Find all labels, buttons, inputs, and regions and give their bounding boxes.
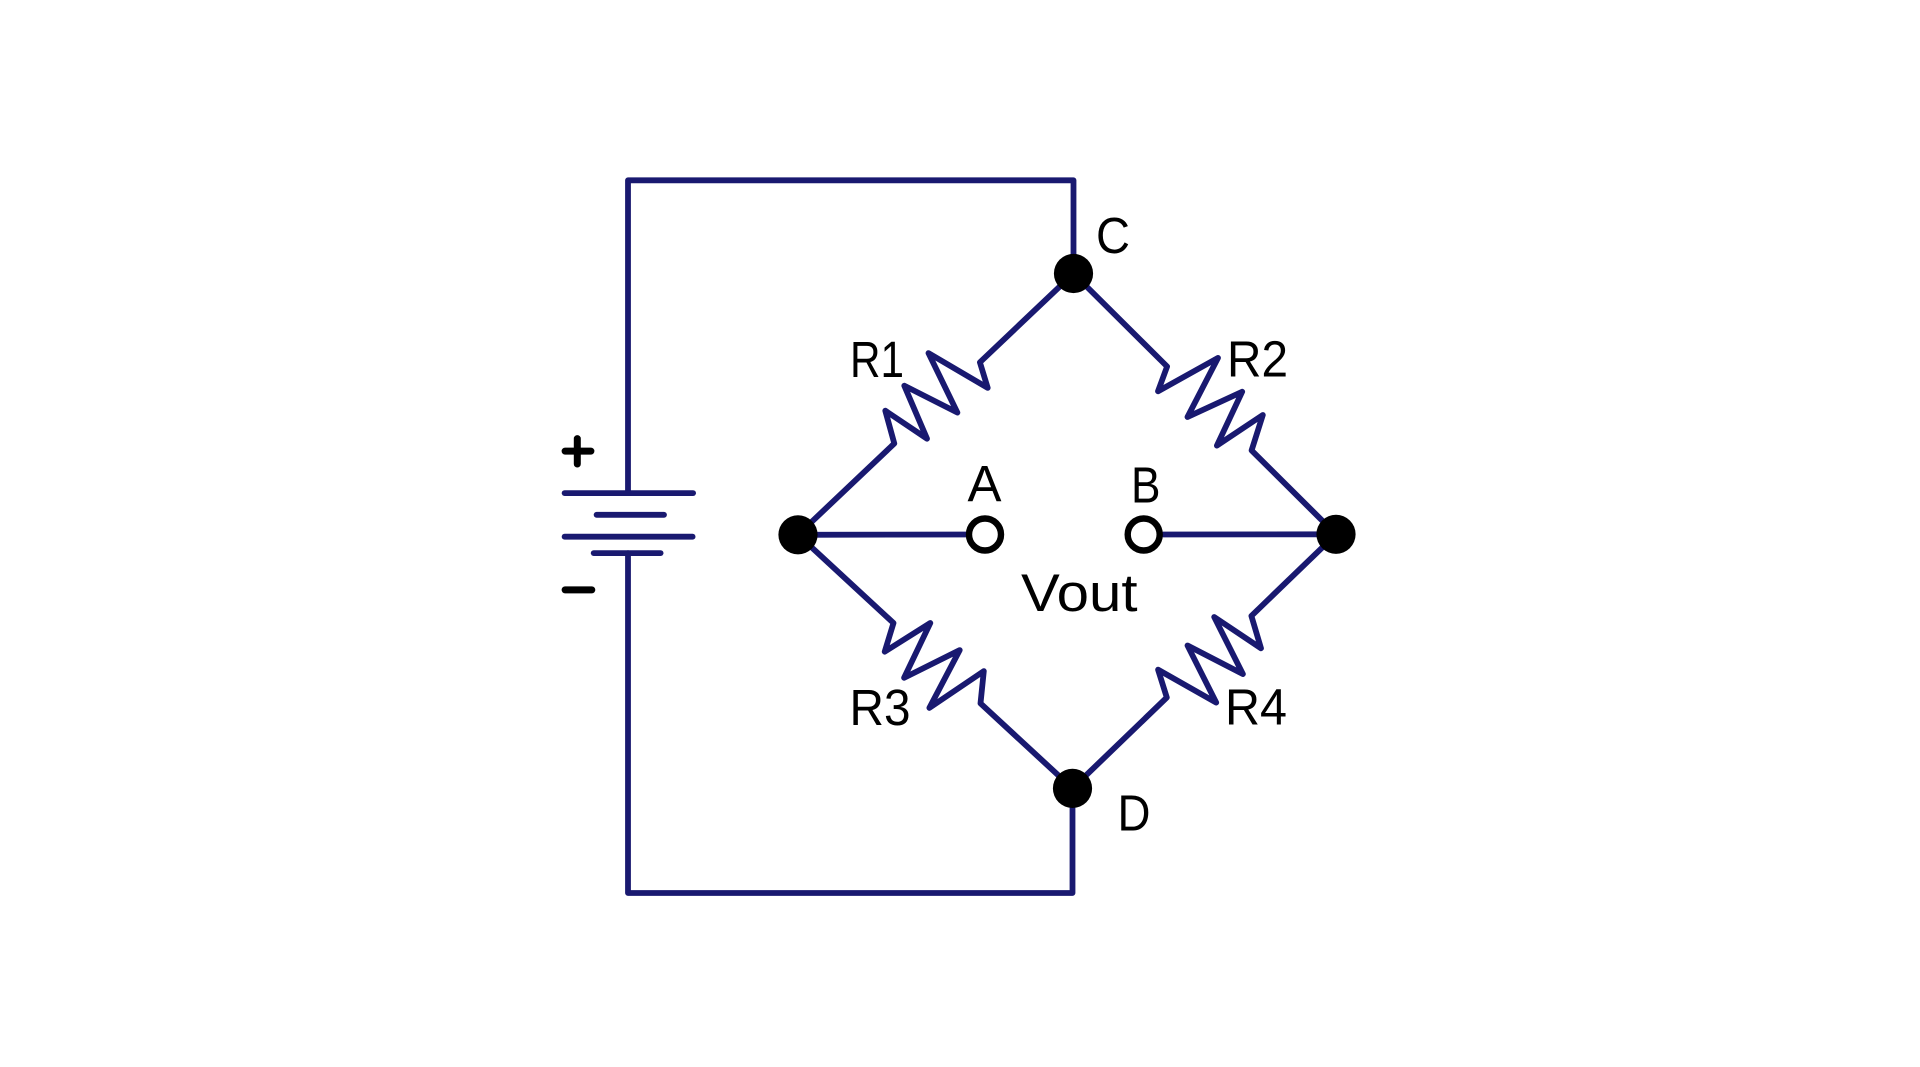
battery positive terminal symbol + bbox=[565, 439, 591, 464]
wire from terminal B to right junction node bbox=[1163, 531, 1336, 537]
terminal A open circle bbox=[969, 519, 1001, 551]
svg-text:R3: R3 bbox=[850, 679, 911, 736]
terminal B open circle bbox=[1128, 519, 1160, 551]
node C junction dot bbox=[1054, 254, 1093, 293]
battery negative terminal symbol − bbox=[565, 586, 592, 593]
svg-text:C: C bbox=[1096, 207, 1130, 264]
svg-text:A: A bbox=[968, 456, 1002, 513]
right junction node dot bbox=[1316, 515, 1355, 554]
left junction node dot bbox=[778, 515, 817, 554]
wire from battery + terminal up and across to node C bbox=[628, 180, 1074, 493]
resistor R4 bbox=[1073, 534, 1337, 788]
svg-text:R4: R4 bbox=[1225, 679, 1287, 736]
svg-text:R2: R2 bbox=[1227, 331, 1288, 388]
resistor R3 bbox=[798, 535, 1073, 789]
resistor R2 bbox=[1074, 274, 1337, 535]
resistor R1 bbox=[798, 274, 1074, 535]
wire from battery − terminal down and across to node D bbox=[628, 553, 1073, 893]
svg-text:B: B bbox=[1131, 456, 1161, 513]
svg-text:Vout: Vout bbox=[1021, 564, 1138, 623]
battery V1 plates bbox=[565, 493, 694, 553]
svg-text:D: D bbox=[1118, 785, 1151, 842]
node D junction dot bbox=[1053, 769, 1092, 808]
wire from left junction node to terminal A bbox=[798, 532, 966, 538]
svg-text:R1: R1 bbox=[850, 331, 904, 388]
